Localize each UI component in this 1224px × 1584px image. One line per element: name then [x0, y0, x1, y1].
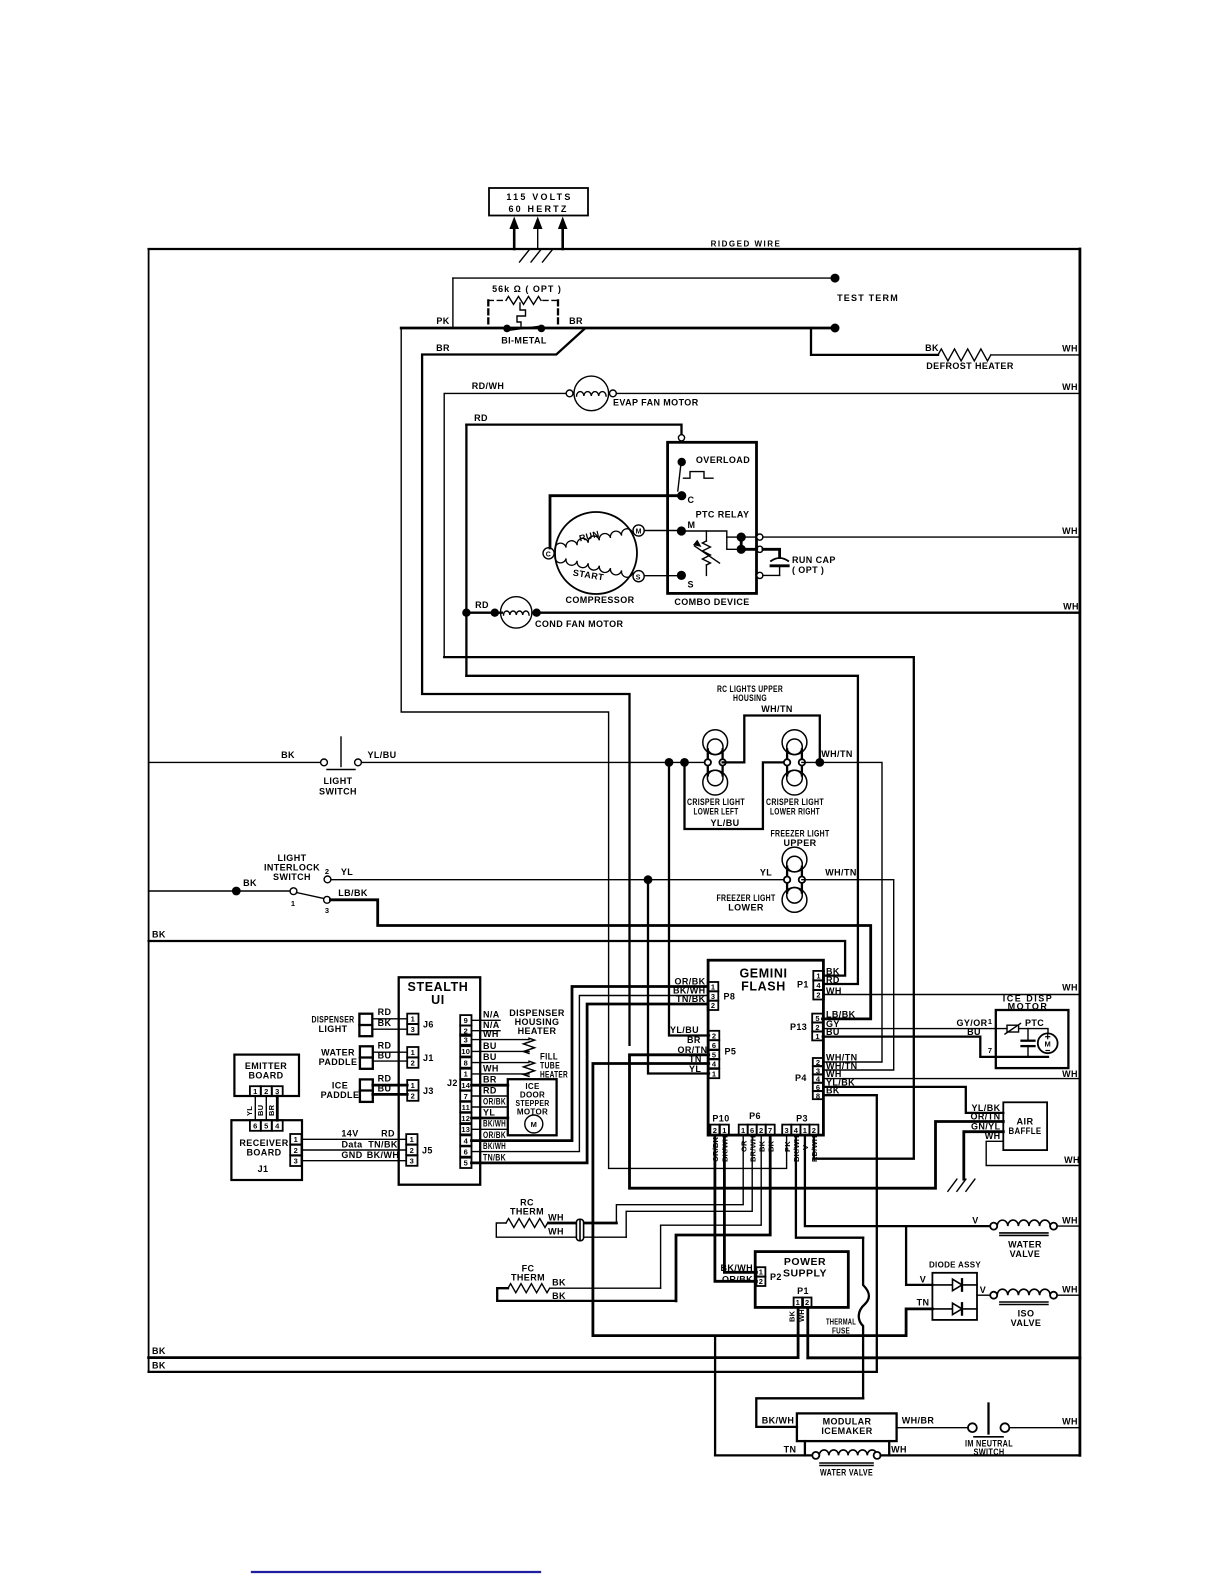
label DISPENSER LIGHT — [312, 1015, 355, 1035]
svg-text:56k Ω ( OPT ): 56k Ω ( OPT ) — [492, 284, 562, 294]
svg-text:TEST TERM: TEST TERM — [837, 293, 899, 303]
svg-text:BR: BR — [687, 1035, 701, 1045]
svg-text:13: 13 — [461, 1125, 470, 1134]
bi-metal switch contacts — [503, 325, 545, 333]
wire BK bus to P1-1 — [149, 941, 846, 976]
wire ice RD — [373, 1084, 407, 1087]
node combo S dot — [677, 571, 686, 580]
svg-text:OR/BK: OR/BK — [483, 1096, 506, 1106]
connector P13 pin 5 — [812, 1014, 823, 1023]
wire TN P5-4 to diode assy — [593, 1064, 933, 1336]
svg-text:P1: P1 — [797, 980, 809, 990]
wire light switch to crisper — [362, 761, 705, 763]
wire FC therm loop — [497, 1288, 676, 1301]
svg-text:2: 2 — [411, 1092, 415, 1101]
wire top supply line — [149, 248, 1080, 250]
svg-text:4: 4 — [275, 1121, 280, 1130]
svg-text:WH: WH — [548, 1227, 564, 1237]
connector splice rc — [576, 1219, 583, 1240]
svg-text:1: 1 — [411, 1048, 415, 1057]
svg-text:1: 1 — [803, 1126, 807, 1135]
connector P6 pin 2 — [757, 1125, 766, 1136]
wire TN branch to im water valve — [714, 1336, 716, 1456]
svg-text:4: 4 — [464, 1136, 469, 1145]
label IM NEUTRAL SWITCH — [965, 1439, 1013, 1457]
svg-text:J6: J6 — [423, 1020, 434, 1030]
wire crisper WH/TN to P4-2 — [802, 762, 882, 1062]
wire receiver 14V RD — [302, 1138, 407, 1140]
svg-text:J1: J1 — [423, 1053, 434, 1063]
connector P1 pin 1 — [813, 971, 824, 981]
svg-text:2: 2 — [712, 1031, 716, 1040]
svg-text:EMITTER: EMITTER — [245, 1061, 287, 1071]
svg-text:BOARD: BOARD — [247, 1148, 282, 1158]
connector J5 pin 1 — [406, 1134, 417, 1144]
connector J2 pin 14 — [460, 1080, 471, 1090]
emitter board box — [234, 1055, 299, 1096]
svg-text:WH/TN: WH/TN — [821, 749, 853, 759]
svg-text:FREEZER LIGHT: FREEZER LIGHT — [771, 829, 830, 839]
wire M jog upper branch — [727, 536, 741, 538]
crisper light lower right — [782, 730, 807, 795]
svg-text:UI: UI — [431, 993, 445, 1007]
im water valve solenoid — [812, 1450, 880, 1466]
connector P13 pin 2 — [812, 1023, 823, 1032]
wire WH baffle to bus — [986, 1141, 1080, 1165]
supply arrow 3 — [558, 217, 568, 250]
hash marks on supply line — [520, 250, 553, 263]
svg-text:1: 1 — [796, 1298, 800, 1307]
connector P13 pin 1 — [812, 1032, 823, 1041]
wire cond fan to WH bus — [537, 612, 1080, 614]
svg-text:6: 6 — [750, 1126, 754, 1135]
connector J5 pin 2 — [406, 1145, 417, 1155]
wire receiver GND — [302, 1160, 407, 1162]
wire evap to WH bus — [616, 392, 1080, 394]
diode 1 — [932, 1279, 977, 1291]
im neutral switch — [968, 1404, 1009, 1437]
svg-text:HEATER: HEATER — [518, 1026, 557, 1036]
wire P3-4 BK/WH to thermal fuse — [796, 1135, 863, 1238]
wire water valve to bus — [1057, 1225, 1080, 1227]
label DISPENSER HOUSING HEATER — [509, 1008, 565, 1036]
svg-text:CRISPER LIGHT: CRISPER LIGHT — [687, 797, 745, 807]
wire light switch BK side — [149, 761, 321, 763]
resistor defrost heater — [938, 349, 991, 361]
svg-text:YL/BU: YL/BU — [670, 1025, 699, 1035]
connector P3 pin 2 — [809, 1125, 818, 1136]
svg-text:BR: BR — [569, 316, 583, 326]
wire test terminal upper — [453, 277, 835, 279]
svg-text:BK: BK — [152, 1361, 166, 1371]
connector P5 pin 4 — [709, 1059, 720, 1069]
wire J2-10 BU — [472, 1050, 530, 1052]
wire P6-2 BK to FC therm — [661, 1135, 762, 1288]
wire P10-1 BK/WH to P2-1 — [724, 1135, 756, 1272]
power source box 115V/60Hz — [489, 188, 588, 216]
svg-text:1: 1 — [816, 971, 820, 980]
thermal fuse — [859, 1238, 869, 1399]
wire P4-4 WH to bus — [823, 1078, 1080, 1080]
wire P1-2 WH to bus — [824, 994, 1080, 996]
svg-text:RD/WH: RD/WH — [472, 381, 505, 391]
connector P10 pin 1 — [720, 1125, 729, 1136]
connector P5 pin 2 — [709, 1031, 720, 1041]
connector J3 pin 1 — [407, 1080, 418, 1090]
svg-text:N/A: N/A — [483, 1010, 500, 1020]
svg-text:PTC: PTC — [1025, 1018, 1044, 1028]
svg-text:5: 5 — [815, 1014, 819, 1023]
wire test term riser — [452, 278, 454, 328]
wire J2-6 BK/WH to P8-3 — [472, 996, 708, 1152]
svg-text:WH: WH — [1062, 1285, 1078, 1295]
svg-text:3: 3 — [411, 1025, 415, 1034]
wire water BU — [373, 1060, 407, 1062]
connector P1 pin 4 — [813, 981, 824, 991]
label THERMAL FUSE — [826, 1318, 856, 1336]
dispenser light component — [359, 1014, 372, 1036]
wire J2-1 WH — [472, 1073, 530, 1075]
crisper light lower left — [703, 730, 728, 795]
svg-text:C: C — [546, 552, 551, 559]
svg-text:P5: P5 — [725, 1047, 737, 1057]
wire J2-14 BR — [472, 1084, 508, 1087]
wire V branch to diode — [906, 1226, 932, 1285]
connector J2 pin 12 — [460, 1113, 471, 1123]
receiver pin 1 — [290, 1134, 301, 1144]
svg-text:BK: BK — [552, 1291, 566, 1301]
svg-text:P6: P6 — [749, 1111, 761, 1121]
cond fan motor — [501, 597, 532, 628]
svg-text:LOWER: LOWER — [728, 903, 764, 913]
connector J2 pin 5 — [460, 1158, 471, 1168]
supply arrow 1 — [509, 217, 519, 250]
svg-text:2: 2 — [325, 867, 329, 876]
node crisper jumper dot — [680, 758, 689, 767]
svg-text:2: 2 — [713, 1126, 717, 1135]
svg-text:1: 1 — [410, 1135, 414, 1144]
svg-text:C: C — [688, 495, 695, 505]
wire compressor C to combo — [550, 496, 679, 548]
wire interlock BK line — [149, 890, 291, 892]
connector J5 pin 3 — [406, 1156, 417, 1166]
wire GN/YL baffle to ground — [964, 1132, 1004, 1179]
svg-text:2: 2 — [264, 1087, 268, 1096]
receiver pin 2 — [290, 1145, 301, 1155]
wire J2-13 BK/WH — [472, 1128, 508, 1130]
svg-text:M: M — [688, 520, 696, 530]
combo edge terminal middle — [757, 546, 763, 552]
label FREEZER LIGHT UPPER — [771, 829, 830, 849]
svg-text:BR: BR — [436, 343, 450, 353]
svg-text:4: 4 — [794, 1126, 799, 1135]
connector P2 pin 1 — [756, 1267, 765, 1277]
svg-text:7: 7 — [988, 1046, 992, 1055]
wire YL riser to P5-1 — [648, 880, 709, 1074]
water valve solenoid — [990, 1220, 1057, 1235]
svg-text:SWITCH: SWITCH — [319, 787, 357, 797]
svg-text:5: 5 — [264, 1121, 268, 1130]
resistor FC therm — [508, 1284, 550, 1293]
node combo M dot — [677, 526, 686, 535]
ice disp motor box — [996, 1010, 1069, 1068]
stepper motor M circle — [525, 1115, 543, 1133]
connector P1 pin 2 — [813, 990, 824, 1000]
wire LB/BK to P13-5 — [330, 900, 870, 1019]
wire iso valve to bus — [1057, 1294, 1080, 1296]
svg-text:WH/TN: WH/TN — [825, 868, 857, 878]
wire thermistor to motor — [1019, 1029, 1048, 1034]
svg-text:BU: BU — [967, 1027, 981, 1037]
resistor 56k optional — [488, 296, 558, 324]
ice door stepper motor box — [508, 1079, 557, 1135]
svg-text:BU: BU — [378, 1084, 392, 1094]
gemini flash box — [708, 960, 823, 1135]
connector J2 pin 7 — [460, 1091, 471, 1101]
svg-text:LIGHT: LIGHT — [319, 1024, 348, 1034]
compressor terminal S — [633, 571, 644, 582]
svg-text:LOWER RIGHT: LOWER RIGHT — [770, 807, 820, 817]
connector J6 pin 3 — [407, 1024, 418, 1034]
svg-text:2: 2 — [711, 1001, 715, 1010]
svg-text:M: M — [636, 529, 642, 536]
node interlock BK dot — [232, 887, 241, 896]
svg-text:LIGHT: LIGHT — [278, 853, 307, 863]
compressor start winding — [555, 556, 633, 577]
svg-text:LIGHT: LIGHT — [324, 776, 353, 786]
svg-text:6: 6 — [712, 1041, 716, 1050]
wire J2-3 WH — [472, 1039, 530, 1041]
label ICE PADDLE — [321, 1081, 360, 1101]
connector J2 pin 4 — [460, 1135, 471, 1145]
wire left BK bus vertical — [148, 249, 150, 1372]
svg-text:SWITCH: SWITCH — [273, 872, 311, 882]
svg-text:11: 11 — [462, 1103, 470, 1112]
node test terminal upper dot — [831, 274, 840, 283]
connector J2 pin 10 — [460, 1046, 471, 1056]
wire relay dots link — [740, 537, 743, 549]
svg-text:2: 2 — [759, 1126, 763, 1135]
connector J2 pin 9 — [460, 1015, 471, 1025]
wire cap top lead — [763, 549, 780, 557]
svg-text:MODULAR: MODULAR — [823, 1417, 872, 1427]
svg-text:9: 9 — [464, 1016, 468, 1025]
svg-text:4: 4 — [712, 1059, 717, 1068]
wire BR tap diagonal — [422, 328, 629, 1045]
connector J3 pin 2 — [407, 1091, 418, 1101]
svg-text:BU: BU — [256, 1105, 265, 1116]
svg-text:WH: WH — [1064, 1155, 1080, 1165]
node YL/BU riser dot — [665, 758, 674, 767]
receiver pin 6 — [250, 1120, 261, 1131]
svg-text:FREEZER LIGHT: FREEZER LIGHT — [717, 893, 776, 903]
svg-text:RD: RD — [474, 413, 488, 423]
wire right WH bus vertical — [1079, 249, 1082, 1455]
svg-text:COND FAN MOTOR: COND FAN MOTOR — [535, 619, 624, 629]
svg-text:RECEIVER: RECEIVER — [239, 1138, 288, 1148]
connector P3 pin 3 — [782, 1125, 791, 1136]
svg-text:OVERLOAD: OVERLOAD — [696, 455, 750, 465]
svg-text:3: 3 — [410, 1157, 414, 1166]
svg-text:FUSE: FUSE — [832, 1327, 850, 1336]
svg-text:RD: RD — [378, 1041, 392, 1051]
svg-text:ICE: ICE — [332, 1081, 348, 1091]
svg-text:1: 1 — [815, 1032, 819, 1041]
svg-text:ISO: ISO — [1018, 1309, 1035, 1319]
wire J2-9 N/A — [472, 1019, 501, 1021]
svg-text:7: 7 — [768, 1126, 772, 1135]
label RECEIVER BOARD — [239, 1138, 288, 1158]
wire RD cond fan right branch — [466, 676, 858, 984]
svg-text:VALVE: VALVE — [1011, 1318, 1042, 1328]
label CRISPER LIGHT LOWER LEFT — [687, 797, 745, 817]
svg-text:14: 14 — [461, 1081, 470, 1090]
svg-text:BK: BK — [378, 1018, 392, 1028]
svg-text:3: 3 — [294, 1157, 298, 1166]
capacitor ice disp — [1022, 1029, 1035, 1057]
wire WH line to bus right — [808, 1356, 1080, 1359]
svg-text:RD: RD — [378, 1074, 392, 1084]
resistor fill tube heater — [524, 1061, 535, 1076]
svg-text:BOARD: BOARD — [249, 1071, 284, 1081]
wire dispenser BK — [372, 1028, 407, 1030]
svg-text:2: 2 — [759, 1277, 763, 1286]
svg-text:BI-METAL: BI-METAL — [501, 336, 547, 346]
wire emitter BU — [265, 1096, 267, 1120]
svg-text:2: 2 — [410, 1146, 414, 1155]
svg-text:Data: Data — [341, 1140, 363, 1150]
compressor terminal M — [633, 525, 644, 536]
svg-text:2: 2 — [816, 991, 820, 1000]
svg-text:WH/TN: WH/TN — [761, 704, 793, 714]
svg-text:EVAP FAN MOTOR: EVAP FAN MOTOR — [613, 398, 699, 408]
svg-text:115 VOLTS: 115 VOLTS — [506, 192, 572, 202]
node test terminal lower dot — [831, 324, 840, 333]
label FREEZER LIGHT LOWER — [717, 893, 776, 913]
svg-text:2: 2 — [812, 1126, 816, 1135]
combo edge terminal upper — [757, 534, 763, 540]
connector J2 pin 6 — [460, 1146, 471, 1156]
svg-text:S: S — [636, 574, 641, 581]
svg-text:1: 1 — [464, 1070, 468, 1079]
resistor RC therm — [506, 1219, 548, 1228]
wire freezer WH/TN to P4-3 — [802, 880, 894, 1070]
overload heater step — [684, 472, 714, 479]
svg-text:BK/WH: BK/WH — [483, 1141, 506, 1151]
wire BK bus bottom — [149, 1356, 799, 1359]
connector P10 pin 2 — [710, 1125, 719, 1136]
svg-text:M: M — [531, 1120, 537, 1129]
svg-text:1: 1 — [759, 1268, 763, 1277]
svg-text:2: 2 — [805, 1298, 809, 1307]
wire P10-2 OR/BK to P2-2 — [715, 1135, 757, 1281]
connector P8 pin 2 — [708, 1001, 719, 1010]
wire defrost heater branch — [811, 328, 938, 355]
connector P2 pin 2 — [756, 1277, 765, 1287]
svg-text:BK: BK — [281, 750, 295, 760]
wire compressor S to combo — [644, 575, 679, 577]
svg-text:1: 1 — [411, 1015, 415, 1024]
svg-text:2: 2 — [294, 1146, 298, 1155]
svg-text:BU: BU — [483, 1052, 497, 1062]
connector P5 pin 1 — [709, 1069, 720, 1079]
svg-text:P3: P3 — [796, 1114, 808, 1124]
svg-text:DISPENSER: DISPENSER — [312, 1015, 355, 1025]
svg-text:WATER VALVE: WATER VALVE — [820, 1468, 873, 1478]
connector J2 pin 8 — [460, 1057, 471, 1067]
connector J1 pin 2 — [407, 1058, 418, 1068]
wire im switch to bus — [1009, 1427, 1080, 1429]
connector P6 pin 7 — [766, 1125, 775, 1136]
svg-text:WH: WH — [483, 1029, 499, 1039]
svg-text:BR: BR — [483, 1075, 497, 1085]
svg-text:THERM: THERM — [510, 1207, 544, 1217]
wire compressor M to combo — [644, 530, 679, 532]
connector P4 pin 4 — [813, 1075, 824, 1084]
svg-text:BU: BU — [378, 1051, 392, 1061]
air baffle box — [1003, 1102, 1047, 1150]
svg-text:WATER: WATER — [321, 1048, 355, 1058]
svg-text:RIDGED WIRE: RIDGED WIRE — [711, 240, 782, 249]
svg-text:OR/BK: OR/BK — [722, 1275, 753, 1285]
emitter pin 1 — [250, 1086, 261, 1096]
combo edge terminal lower — [757, 572, 763, 578]
svg-text:J2: J2 — [447, 1078, 458, 1088]
wire emitter YL — [254, 1096, 256, 1120]
compressor body — [555, 512, 637, 594]
svg-text:RUN CAP: RUN CAP — [792, 555, 836, 565]
receiver board box — [231, 1120, 302, 1180]
connector J2 pin 1 — [460, 1069, 471, 1079]
svg-text:1: 1 — [712, 1069, 716, 1078]
svg-text:ICEMAKER: ICEMAKER — [821, 1426, 872, 1436]
receiver pin 3 — [290, 1156, 301, 1166]
svg-text:1: 1 — [291, 899, 295, 908]
connector P5 pin 6 — [709, 1040, 720, 1050]
svg-text:HOUSING: HOUSING — [733, 693, 767, 703]
bi-metal heater step link — [517, 303, 526, 326]
label GEMINI FLASH — [739, 967, 787, 994]
resistor dispenser housing heater — [524, 1038, 535, 1053]
node relay dot upper — [737, 533, 746, 542]
label RUN CAP OPT — [792, 555, 836, 575]
label AIR BAFFLE — [1009, 1117, 1042, 1137]
light switch — [321, 737, 362, 770]
connector J2 pin 2 — [460, 1026, 471, 1036]
wire relay to edge upper — [741, 536, 757, 538]
wire P6-6 BR/WH to RC therm return — [626, 1135, 752, 1237]
wire P3-1 V to water valve — [805, 1135, 990, 1226]
svg-text:12: 12 — [461, 1114, 470, 1123]
connector J2 pin 13 — [460, 1124, 471, 1134]
connector P4 pin 6 — [813, 1083, 824, 1092]
wire P3-2 RD/WH riser — [444, 657, 914, 1159]
svg-text:UPPER: UPPER — [783, 838, 816, 848]
node cond fan left dot — [491, 609, 499, 617]
svg-text:PTC RELAY: PTC RELAY — [696, 510, 750, 520]
wire relay lower to edge — [741, 548, 757, 551]
svg-text:V: V — [972, 1216, 978, 1226]
emitter pin 2 — [261, 1086, 272, 1096]
svg-text:SUPPLY: SUPPLY — [783, 1268, 827, 1280]
svg-text:14V: 14V — [341, 1129, 358, 1139]
svg-text:BK: BK — [152, 1346, 166, 1356]
svg-text:( OPT ): ( OPT ) — [792, 565, 824, 575]
svg-text:4: 4 — [816, 981, 821, 990]
label ICE DOOR STEPPER MOTOR — [516, 1082, 550, 1117]
svg-text:BK: BK — [152, 930, 166, 940]
svg-text:STEALTH: STEALTH — [408, 980, 469, 994]
